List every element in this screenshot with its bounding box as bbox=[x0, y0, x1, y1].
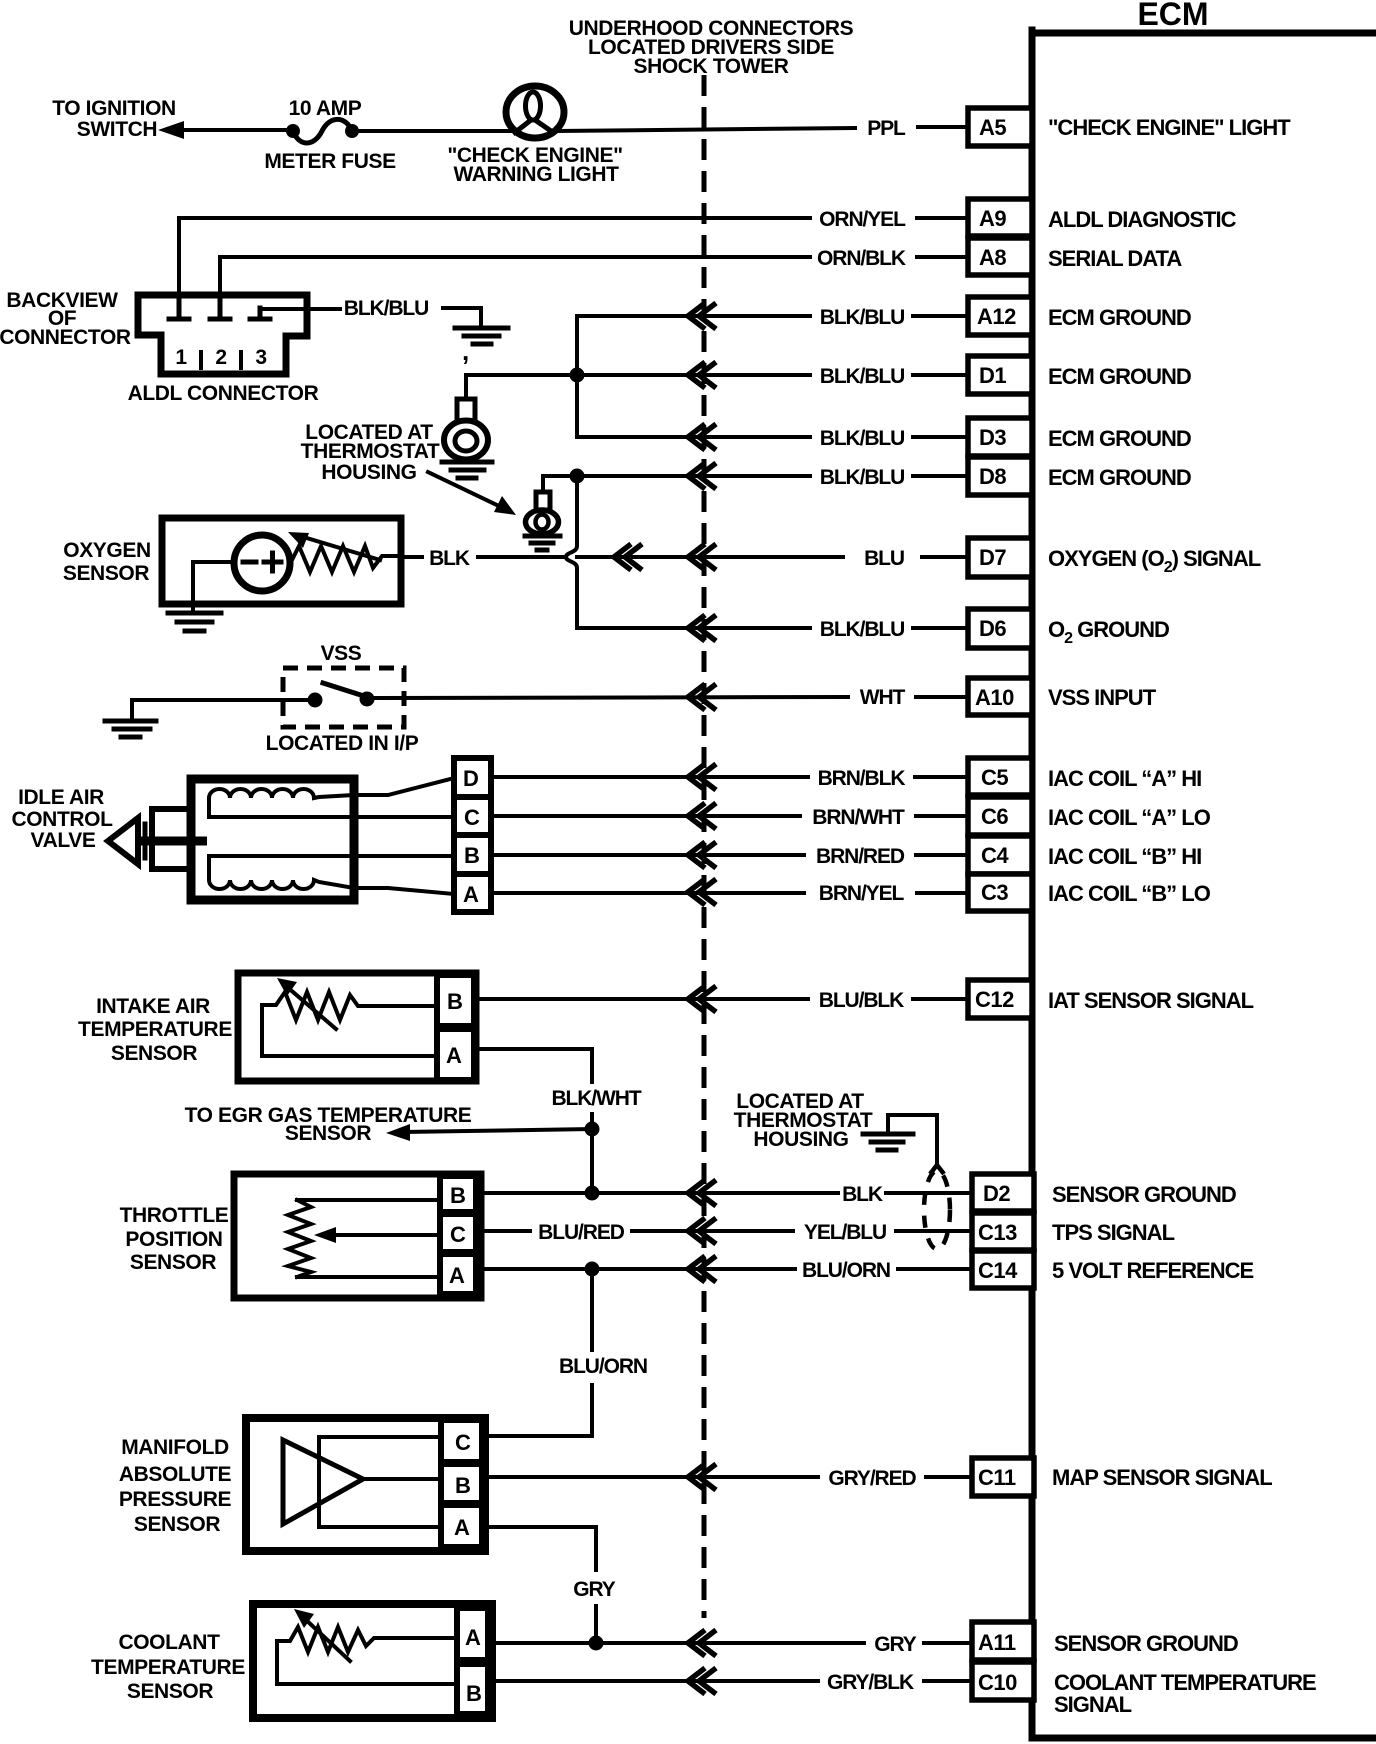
svg-text:BLK/WHT: BLK/WHT bbox=[551, 1087, 641, 1110]
svg-text:PPL: PPL bbox=[867, 117, 906, 140]
svg-text:IDLE AIR: IDLE AIR bbox=[18, 786, 104, 809]
svg-text:5 VOLT REFERENCE: 5 VOLT REFERENCE bbox=[1052, 1258, 1254, 1283]
svg-text:3: 3 bbox=[255, 346, 266, 369]
pin box C13 bbox=[972, 1213, 1034, 1250]
svg-text:C12: C12 bbox=[975, 987, 1014, 1012]
svg-text:ECM GROUND: ECM GROUND bbox=[1048, 305, 1191, 330]
IAT pin B bbox=[437, 975, 474, 1026]
svg-text:GRY/RED: GRY/RED bbox=[828, 1467, 916, 1490]
wire IAT A BLK/WHT bbox=[474, 1049, 592, 1082]
throttle position sensor box bbox=[234, 1174, 481, 1298]
connector chevrons C13 wire bbox=[688, 1218, 716, 1244]
wire fuse to lamp bbox=[352, 129, 512, 133]
wire C4 BRN/RED bbox=[491, 853, 804, 857]
svg-text:INTAKE AIR: INTAKE AIR bbox=[96, 995, 210, 1018]
svg-text:SENSOR GROUND: SENSOR GROUND bbox=[1052, 1182, 1236, 1207]
svg-text:10 AMP: 10 AMP bbox=[289, 97, 362, 120]
svg-text:BLK/BLU: BLK/BLU bbox=[820, 306, 904, 329]
wire ground bus lower with merge bbox=[566, 476, 577, 628]
pin box C3 bbox=[968, 874, 1032, 911]
svg-text:BLK: BLK bbox=[842, 1183, 883, 1206]
svg-text:IAC COIL “B” LO: IAC COIL “B” LO bbox=[1048, 881, 1211, 906]
svg-text:BLU/ORN: BLU/ORN bbox=[802, 1259, 890, 1282]
TPS pin A bbox=[440, 1254, 476, 1294]
ground (eyelet large) bbox=[442, 462, 492, 478]
svg-text:ECM GROUND: ECM GROUND bbox=[1048, 426, 1191, 451]
svg-text:MAP SENSOR SIGNAL: MAP SENSOR SIGNAL bbox=[1052, 1465, 1272, 1490]
svg-text:SENSOR: SENSOR bbox=[134, 1513, 221, 1536]
svg-text:C: C bbox=[450, 1222, 466, 1247]
svg-text:BRN/YEL: BRN/YEL bbox=[819, 882, 905, 905]
svg-text:A10: A10 bbox=[975, 685, 1014, 710]
wire C13 BLU/RED bbox=[476, 1229, 530, 1233]
wire O2 sensor BLK out bbox=[401, 555, 422, 559]
IAT pin A bbox=[437, 1029, 474, 1080]
ECM box bottom edge bbox=[1032, 1735, 1376, 1742]
svg-text:C: C bbox=[464, 805, 480, 830]
node junction TPS A bbox=[585, 1262, 600, 1277]
pin box A10 bbox=[968, 678, 1032, 715]
ground (VSS) bbox=[105, 721, 156, 737]
wire D1 junction to eyelet ground bbox=[466, 375, 577, 399]
svg-text:D8: D8 bbox=[979, 464, 1006, 489]
IAT thermistor bbox=[262, 992, 437, 1020]
wire O2 cell to ground bbox=[193, 562, 234, 611]
node EGR junction bbox=[585, 1122, 600, 1137]
svg-text:1: 1 bbox=[175, 346, 187, 369]
eyelet terminal at thermostat housing (large) bbox=[444, 399, 488, 460]
IAC pintle neck bbox=[152, 809, 190, 869]
IAC pintle stem bbox=[140, 837, 207, 846]
svg-text:SWITCH: SWITCH bbox=[77, 118, 157, 141]
TPS pin B bbox=[440, 1176, 476, 1212]
TPS potentiometer track bbox=[288, 1200, 440, 1277]
svg-text:SHOCK TOWER: SHOCK TOWER bbox=[633, 55, 788, 78]
vss switch lever bbox=[323, 683, 367, 697]
svg-text:D7: D7 bbox=[979, 545, 1006, 570]
wire ALDL pin 3 BLK/BLU bbox=[260, 307, 340, 311]
svg-text:2: 2 bbox=[215, 346, 226, 369]
wire vss to ground bbox=[132, 700, 308, 719]
connector chevrons D2 wire bbox=[688, 1180, 716, 1206]
MAP amplifier triangle bbox=[283, 1440, 363, 1524]
svg-text:A8: A8 bbox=[979, 245, 1006, 270]
CTS pin B bbox=[457, 1664, 488, 1714]
svg-text:IAC COIL “A” HI: IAC COIL “A” HI bbox=[1048, 766, 1201, 791]
svg-text:A12: A12 bbox=[977, 304, 1016, 329]
pin box A8 bbox=[968, 238, 1032, 275]
wire O2 sensor BLK merge bbox=[478, 555, 566, 559]
svg-text:CONTROL: CONTROL bbox=[11, 808, 113, 831]
svg-text:TEMPERATURE: TEMPERATURE bbox=[78, 1018, 232, 1041]
wire D2 BLK bbox=[476, 1191, 838, 1195]
oxygen sensor box bbox=[162, 518, 401, 604]
svg-text:ORN/BLK: ORN/BLK bbox=[817, 247, 906, 270]
svg-text:IAT SENSOR SIGNAL: IAT SENSOR SIGNAL bbox=[1048, 988, 1254, 1013]
shield oval (twisted pair at D2/C13) bbox=[930, 1165, 944, 1174]
svg-text:ECM: ECM bbox=[1137, 0, 1208, 32]
pin box C14 bbox=[972, 1251, 1034, 1288]
svg-text:BLK/BLU: BLK/BLU bbox=[820, 427, 904, 450]
wire D1 BLK/BLU bbox=[577, 373, 810, 377]
connector chevrons D7 wire at dashed line bbox=[688, 544, 716, 570]
check engine warning light lamp bbox=[447, 86, 622, 186]
wire BLU/ORN down bbox=[590, 1269, 594, 1350]
svg-text:TEMPERATURE: TEMPERATURE bbox=[91, 1656, 245, 1679]
pin box C5 bbox=[968, 758, 1032, 795]
ALDL pin 1 bbox=[169, 297, 189, 319]
svg-text:MANIFOLD: MANIFOLD bbox=[121, 1436, 229, 1459]
svg-text:POSITION: POSITION bbox=[125, 1228, 222, 1251]
ECM box left spine bbox=[1029, 30, 1036, 1738]
svg-text:C: C bbox=[455, 1430, 471, 1455]
wire ORN/BLK from ALDL pin 2 bbox=[220, 257, 810, 296]
TPS wiper arrow bbox=[330, 1233, 440, 1237]
pin box C12 bbox=[968, 980, 1032, 1018]
svg-text:C11: C11 bbox=[978, 1465, 1016, 1490]
CTS pin A bbox=[457, 1608, 488, 1660]
wire D8 BLK/BLU bbox=[577, 474, 810, 478]
connector chevrons C11 wire bbox=[688, 1464, 716, 1490]
O2 sensor variable arrow bbox=[300, 536, 380, 560]
svg-text:SENSOR: SENSOR bbox=[130, 1251, 217, 1274]
svg-text:BLK/BLU: BLK/BLU bbox=[820, 618, 904, 641]
IAT variable arrow bbox=[286, 986, 336, 1029]
MAP pin C bbox=[441, 1420, 482, 1462]
wire D3 BLK/BLU bbox=[577, 435, 810, 439]
connector chevrons C14 wire bbox=[688, 1256, 716, 1282]
wire C10 GRY/BLK bbox=[488, 1679, 818, 1683]
wire BLK/WHT continues bbox=[590, 1114, 594, 1193]
IAC connector pin B bbox=[454, 835, 491, 874]
svg-text:ECM GROUND: ECM GROUND bbox=[1048, 364, 1191, 389]
IAC coil B winding bbox=[209, 856, 354, 889]
svg-text:SERIAL DATA: SERIAL DATA bbox=[1048, 246, 1182, 271]
pin box D1 bbox=[968, 356, 1032, 394]
svg-text:BRN/RED: BRN/RED bbox=[816, 845, 905, 868]
wire C11 GRY/RED bbox=[482, 1475, 818, 1479]
svg-text:B: B bbox=[464, 843, 479, 868]
svg-text:C5: C5 bbox=[981, 765, 1008, 790]
pin box C6 bbox=[968, 797, 1032, 835]
wire ignition to fuse bbox=[180, 128, 293, 132]
connector chevrons C3 wire bbox=[688, 879, 716, 905]
svg-text:WARNING LIGHT: WARNING LIGHT bbox=[453, 163, 619, 186]
svg-text:IAC COIL “A” LO: IAC COIL “A” LO bbox=[1048, 805, 1211, 830]
svg-text:OXYGEN: OXYGEN bbox=[63, 539, 150, 562]
svg-text:A: A bbox=[449, 1263, 465, 1288]
svg-text:GRY/BLK: GRY/BLK bbox=[827, 1671, 914, 1694]
svg-text:C6: C6 bbox=[981, 804, 1008, 829]
svg-text:D: D bbox=[463, 766, 478, 791]
svg-text:CONNECTOR: CONNECTOR bbox=[0, 326, 131, 349]
svg-text:VSS: VSS bbox=[321, 642, 362, 665]
arrow to small eyelet bbox=[428, 472, 503, 508]
wire thermostat ground elbow bbox=[888, 1115, 937, 1162]
wire GRY continues to CTS junction bbox=[594, 1606, 598, 1643]
connector chevrons D7 wire inner bbox=[614, 544, 642, 570]
svg-text:ALDL CONNECTOR: ALDL CONNECTOR bbox=[128, 382, 319, 405]
svg-text:SIGNAL: SIGNAL bbox=[1054, 1692, 1132, 1717]
pin box C10 bbox=[972, 1662, 1034, 1700]
ECM box top edge bbox=[1032, 30, 1376, 37]
node junction D8 bus bbox=[570, 469, 585, 484]
intake air temperature sensor box bbox=[238, 973, 476, 1081]
svg-text:A: A bbox=[446, 1043, 462, 1068]
svg-text:COOLANT: COOLANT bbox=[118, 1631, 220, 1654]
svg-text:B: B bbox=[447, 989, 462, 1014]
node junction TPS B / BLK-WHT bbox=[585, 1186, 600, 1201]
pin box A5 bbox=[968, 108, 1032, 146]
ground (eyelet small) bbox=[525, 536, 560, 550]
connector chevrons C6 wire bbox=[688, 803, 716, 829]
svg-text:SENSOR: SENSOR bbox=[111, 1042, 198, 1065]
O2 sensor cell symbol bbox=[234, 535, 290, 591]
wire IAC D diagonal bbox=[354, 778, 454, 795]
arrow to EGR gas temperature sensor bbox=[404, 1129, 592, 1132]
svg-text:BLK/BLU: BLK/BLU bbox=[820, 365, 904, 388]
svg-text:D6: D6 bbox=[979, 616, 1006, 641]
svg-text:PRESSURE: PRESSURE bbox=[119, 1488, 232, 1511]
svg-text:BLK: BLK bbox=[429, 547, 470, 570]
svg-text:C13: C13 bbox=[978, 1220, 1017, 1245]
CTS thermistor bbox=[277, 1627, 457, 1652]
svg-text:TPS SIGNAL: TPS SIGNAL bbox=[1052, 1220, 1175, 1245]
pin box C4 bbox=[968, 836, 1032, 874]
connector chevrons C5 wire bbox=[688, 764, 716, 790]
manifold absolute pressure sensor box bbox=[246, 1418, 485, 1551]
MAP pin A bbox=[441, 1505, 482, 1547]
connector chevrons D6 wire bbox=[688, 615, 716, 641]
svg-text:ECM GROUND: ECM GROUND bbox=[1048, 465, 1191, 490]
connector chevrons D1 wire bbox=[688, 362, 716, 388]
vss switch contacts bbox=[308, 693, 323, 708]
IAT lower lead bbox=[262, 1005, 437, 1056]
svg-text:GRY: GRY bbox=[874, 1633, 917, 1656]
svg-text:SENSOR: SENSOR bbox=[285, 1122, 372, 1145]
svg-text:A9: A9 bbox=[979, 206, 1006, 231]
IAC coil A lower lead bbox=[209, 815, 454, 819]
svg-text:THROTTLE: THROTTLE bbox=[120, 1204, 229, 1227]
IAC coil A winding bbox=[209, 789, 354, 817]
arrow to ignition switch bbox=[158, 121, 184, 139]
wire D6 BLK/BLU bbox=[577, 626, 810, 630]
connector chevrons C10 wire bbox=[688, 1668, 716, 1694]
svg-text:C4: C4 bbox=[981, 843, 1009, 868]
pin box D6 bbox=[968, 609, 1032, 648]
svg-text:GRY: GRY bbox=[573, 1578, 616, 1601]
node junction GRY / CTS A bbox=[589, 1636, 604, 1651]
svg-text:B: B bbox=[450, 1183, 465, 1208]
connector chevrons A12 wire bbox=[688, 303, 716, 329]
svg-text:A: A bbox=[465, 1625, 481, 1650]
connector chevrons A10 wire bbox=[688, 684, 716, 710]
ground (thermostat housing) bbox=[863, 1134, 913, 1150]
ground (O2 sensor) bbox=[168, 613, 221, 631]
svg-text:BLU: BLU bbox=[864, 547, 904, 570]
svg-text:BLU/ORN: BLU/ORN bbox=[559, 1355, 647, 1378]
connector chevrons D3 wire bbox=[688, 424, 716, 450]
connector chevrons A11 wire bbox=[688, 1630, 716, 1656]
vss switch dashed box bbox=[283, 668, 404, 727]
svg-text:BLK/BLU: BLK/BLU bbox=[344, 297, 428, 320]
ALDL pin 3 bbox=[250, 308, 270, 319]
svg-text:BLU/BLK: BLU/BLK bbox=[819, 989, 904, 1012]
CTS lower lead bbox=[277, 1641, 457, 1684]
wire C14 BLU/ORN bbox=[476, 1267, 795, 1271]
pin box D8 bbox=[968, 457, 1032, 495]
svg-text:IAC COIL “B” HI: IAC COIL “B” HI bbox=[1048, 844, 1201, 869]
svg-text:YEL/BLU: YEL/BLU bbox=[804, 1221, 886, 1244]
connector chevrons C4 wire bbox=[688, 842, 716, 868]
wire lamp to PPL label bbox=[556, 128, 855, 131]
svg-text:A11: A11 bbox=[978, 1630, 1016, 1655]
svg-text:BRN/WHT: BRN/WHT bbox=[812, 806, 905, 829]
svg-text:ORN/YEL: ORN/YEL bbox=[819, 208, 906, 231]
ground (ALDL BLK/BLU) bbox=[455, 328, 508, 366]
wire MAP A GRY down bbox=[482, 1527, 596, 1570]
pin box D2 bbox=[972, 1174, 1034, 1211]
wire PPL to A5 bbox=[918, 125, 968, 129]
CTS variable arrow bbox=[305, 1619, 350, 1661]
wire ORN/YEL to A9 bbox=[917, 216, 968, 220]
svg-text:SENSOR: SENSOR bbox=[127, 1680, 214, 1703]
wire C5 BRN/BLK bbox=[491, 775, 808, 779]
svg-text:B: B bbox=[455, 1473, 470, 1498]
svg-text:VSS INPUT: VSS INPUT bbox=[1048, 685, 1157, 710]
svg-text:SENSOR: SENSOR bbox=[63, 562, 150, 585]
svg-text:THERMOSTAT: THERMOSTAT bbox=[301, 440, 440, 463]
IAC connector pin A bbox=[454, 874, 491, 912]
pin box D7 bbox=[968, 538, 1032, 577]
wire C12 BLU/BLK bbox=[474, 997, 808, 1001]
svg-text:METER FUSE: METER FUSE bbox=[264, 150, 396, 173]
eyelet terminal at thermostat housing (small) bbox=[526, 492, 559, 534]
svg-text:BLK/BLU: BLK/BLU bbox=[820, 466, 904, 489]
svg-text:A5: A5 bbox=[979, 115, 1006, 140]
idle air control valve body bbox=[191, 779, 354, 900]
wire D8 junction to small eyelet bbox=[543, 476, 577, 492]
node junction D1 bus bbox=[570, 368, 585, 383]
O2 sensor internal resistor bbox=[290, 546, 401, 572]
svg-text:HOUSING: HOUSING bbox=[753, 1128, 848, 1151]
MAP internal rails bbox=[319, 1437, 441, 1527]
svg-text:C10: C10 bbox=[978, 1670, 1017, 1695]
wire BLK/BLU to chassis ground bbox=[443, 308, 481, 325]
svg-text:ABSOLUTE: ABSOLUTE bbox=[119, 1463, 232, 1486]
svg-text:B: B bbox=[466, 1681, 481, 1706]
MAP output line bbox=[363, 1477, 441, 1481]
ALDL connector body bbox=[138, 295, 307, 374]
pin box A11 bbox=[972, 1622, 1034, 1660]
TPS pin C bbox=[440, 1214, 476, 1252]
wire C3 BRN/YEL bbox=[491, 891, 804, 895]
svg-text:TO IGNITION: TO IGNITION bbox=[52, 97, 176, 120]
pin box D3 bbox=[968, 418, 1032, 456]
underhood connector dashed line bbox=[702, 75, 707, 1618]
svg-text:D1: D1 bbox=[979, 363, 1006, 388]
pin box A12 bbox=[968, 297, 1032, 335]
svg-text:D2: D2 bbox=[983, 1181, 1010, 1206]
svg-text:HOUSING: HOUSING bbox=[321, 461, 416, 484]
wire ORN/BLK to A8 bbox=[917, 255, 968, 259]
svg-text:C3: C3 bbox=[981, 880, 1008, 905]
wire A12 BLK/BLU bbox=[577, 314, 810, 318]
svg-text:A: A bbox=[454, 1515, 470, 1540]
connector chevrons D8 wire bbox=[688, 463, 716, 489]
wire WHT vss to A10 bbox=[374, 697, 848, 698]
wire ORN/YEL from ALDL pin 1 bbox=[179, 218, 810, 296]
wire ground bus upper bbox=[575, 316, 579, 437]
coolant temperature sensor box bbox=[253, 1604, 492, 1718]
IAC connector pin C bbox=[454, 797, 491, 835]
wire C6 BRN/WHT bbox=[491, 814, 800, 818]
svg-text:C14: C14 bbox=[978, 1258, 1018, 1283]
connector chevrons C12 wire bbox=[688, 986, 716, 1012]
fuse F1 10 AMP meter fuse bbox=[264, 97, 396, 173]
IAC coil B upper lead bbox=[209, 854, 454, 858]
svg-text:SENSOR GROUND: SENSOR GROUND bbox=[1054, 1631, 1238, 1656]
svg-text:VALVE: VALVE bbox=[31, 829, 96, 852]
MAP pin B bbox=[441, 1464, 482, 1503]
svg-text:BLU/RED: BLU/RED bbox=[538, 1221, 625, 1244]
svg-text:A: A bbox=[463, 882, 479, 907]
svg-text:D3: D3 bbox=[979, 425, 1006, 450]
wire IAC A diagonal bbox=[354, 888, 454, 894]
svg-text:"CHECK ENGINE" LIGHT: "CHECK ENGINE" LIGHT bbox=[1048, 115, 1291, 140]
pin box A9 bbox=[968, 199, 1032, 236]
svg-text:BRN/BLK: BRN/BLK bbox=[818, 767, 906, 790]
wire D7 BLU bbox=[577, 555, 843, 559]
svg-text:,: , bbox=[462, 336, 469, 366]
svg-text:LOCATED IN I/P: LOCATED IN I/P bbox=[266, 732, 419, 755]
svg-text:ALDL DIAGNOSTIC: ALDL DIAGNOSTIC bbox=[1048, 207, 1237, 232]
IAC connector pin D bbox=[454, 758, 491, 797]
ALDL pin 2 bbox=[210, 297, 230, 319]
IAC pintle cone bbox=[108, 818, 138, 864]
svg-text:WHT: WHT bbox=[860, 686, 906, 709]
wire A11 GRY bbox=[488, 1641, 864, 1645]
wire BLU/ORN to MAP C bbox=[482, 1385, 592, 1436]
pin box C11 bbox=[972, 1458, 1034, 1496]
